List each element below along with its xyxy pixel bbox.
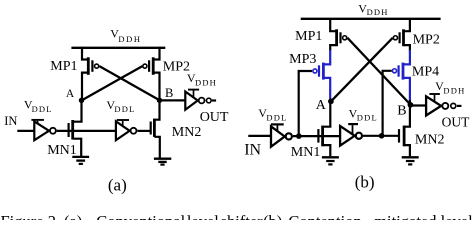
inverter U2b	[340, 124, 362, 146]
svg-text:MN1: MN1	[291, 145, 321, 160]
svg-text:MP3: MP3	[289, 52, 316, 67]
svg-text:Contention: Contention	[288, 212, 361, 220]
svg-text:DDL: DDL	[266, 112, 287, 122]
svg-text:B: B	[397, 104, 406, 119]
wire MP3 gate down to input node	[299, 71, 312, 136]
node B (b)	[408, 102, 414, 108]
node B	[157, 98, 162, 103]
wire MP1 gate to node B (cross-couple)	[99, 66, 159, 100]
svg-text:(a): (a)	[64, 212, 82, 220]
junction node U2b output / MP4 gate	[379, 133, 385, 139]
wire OUT stub (b)	[457, 105, 462, 107]
transistor MP2 (b)	[393, 19, 410, 51]
svg-text:(a): (a)	[108, 176, 127, 195]
wire U1b output to MN1 gate and U2b input	[293, 135, 340, 137]
svg-text:A: A	[66, 88, 75, 100]
svg-text:MP1: MP1	[50, 59, 77, 74]
VDDH rail (b)	[301, 18, 441, 20]
svg-text:DDH: DDH	[367, 7, 389, 17]
wire OUT stub (a)	[212, 99, 216, 101]
svg-text:A: A	[316, 98, 327, 113]
svg-text:mitigated level shifter: mitigated level shifter	[374, 212, 474, 220]
inverter U3a	[185, 90, 204, 110]
OUT terminal (a)	[206, 98, 211, 103]
svg-text:IN: IN	[244, 141, 261, 158]
svg-text:B: B	[165, 86, 173, 100]
svg-text:MN1: MN1	[47, 143, 77, 158]
transistor MP3 (blue)	[313, 50, 330, 99]
transistor MP2	[143, 47, 160, 100]
svg-text:MP4: MP4	[412, 64, 439, 79]
svg-text:DDH: DDH	[118, 34, 141, 44]
svg-text:MN2: MN2	[172, 125, 202, 140]
svg-text:OUT: OUT	[200, 110, 229, 125]
svg-text:DDL: DDL	[114, 104, 135, 114]
wire U2b output to MN2 gate	[363, 135, 399, 137]
svg-text:Figure 2: Figure 2	[1, 212, 56, 220]
svg-text:DDL: DDL	[357, 113, 378, 123]
ground under MN1 (b)	[322, 157, 339, 164]
ground under MN1	[72, 157, 89, 164]
junction node U1b output / MP3 gate	[296, 133, 302, 139]
wire U2a output to MN2 gate	[137, 130, 150, 132]
inverter U1b	[271, 124, 292, 146]
inverter U2a	[116, 120, 137, 140]
wire node B to output inverter U3b	[410, 104, 426, 106]
node A	[79, 98, 84, 103]
svg-text:DDL: DDL	[32, 104, 53, 114]
svg-text:Conventional level shifter: Conventional level shifter	[96, 212, 263, 220]
transistor MP1	[82, 47, 99, 100]
transistor MN1 (b)	[318, 99, 330, 157]
OUT terminal (b)	[451, 103, 456, 108]
ground under MN2	[154, 159, 171, 165]
wire U1a output to MN1 gate and U2a input	[57, 130, 116, 132]
wire IN to inverter U1b	[248, 135, 271, 137]
svg-text:MP2: MP2	[413, 33, 440, 48]
svg-text:OUT: OUT	[442, 115, 470, 130]
VDDH rail (a)	[71, 47, 165, 49]
svg-text:(b): (b)	[355, 172, 375, 191]
inverter U3b	[426, 94, 448, 116]
wire MP1 gate to node B (b)	[347, 38, 410, 105]
svg-text:IN: IN	[4, 114, 17, 128]
ground under MN2 (b)	[402, 157, 419, 164]
transistor MN1	[69, 100, 82, 156]
inverter U1a	[31, 120, 55, 140]
svg-text:(b): (b)	[263, 212, 282, 220]
svg-text:MP1: MP1	[295, 29, 322, 44]
wire node B to output inverter U3a	[160, 99, 186, 101]
wire MP2 gate to node A (b)	[331, 38, 393, 102]
wire MP2 gate to node A (cross-couple)	[82, 66, 142, 100]
svg-text:DDH: DDH	[195, 78, 217, 88]
svg-text:DDH: DDH	[443, 86, 465, 96]
svg-text:MN2: MN2	[415, 132, 445, 147]
wire MP4 gate down to node after U2b	[383, 71, 392, 136]
transistor MP4 (blue)	[392, 50, 409, 102]
transistor MN2 (b)	[399, 100, 410, 156]
transistor MP1 (b)	[330, 19, 347, 51]
wire IN to inverter U1a	[17, 130, 34, 132]
transistor MN2	[151, 100, 160, 158]
node A (b)	[328, 99, 334, 105]
